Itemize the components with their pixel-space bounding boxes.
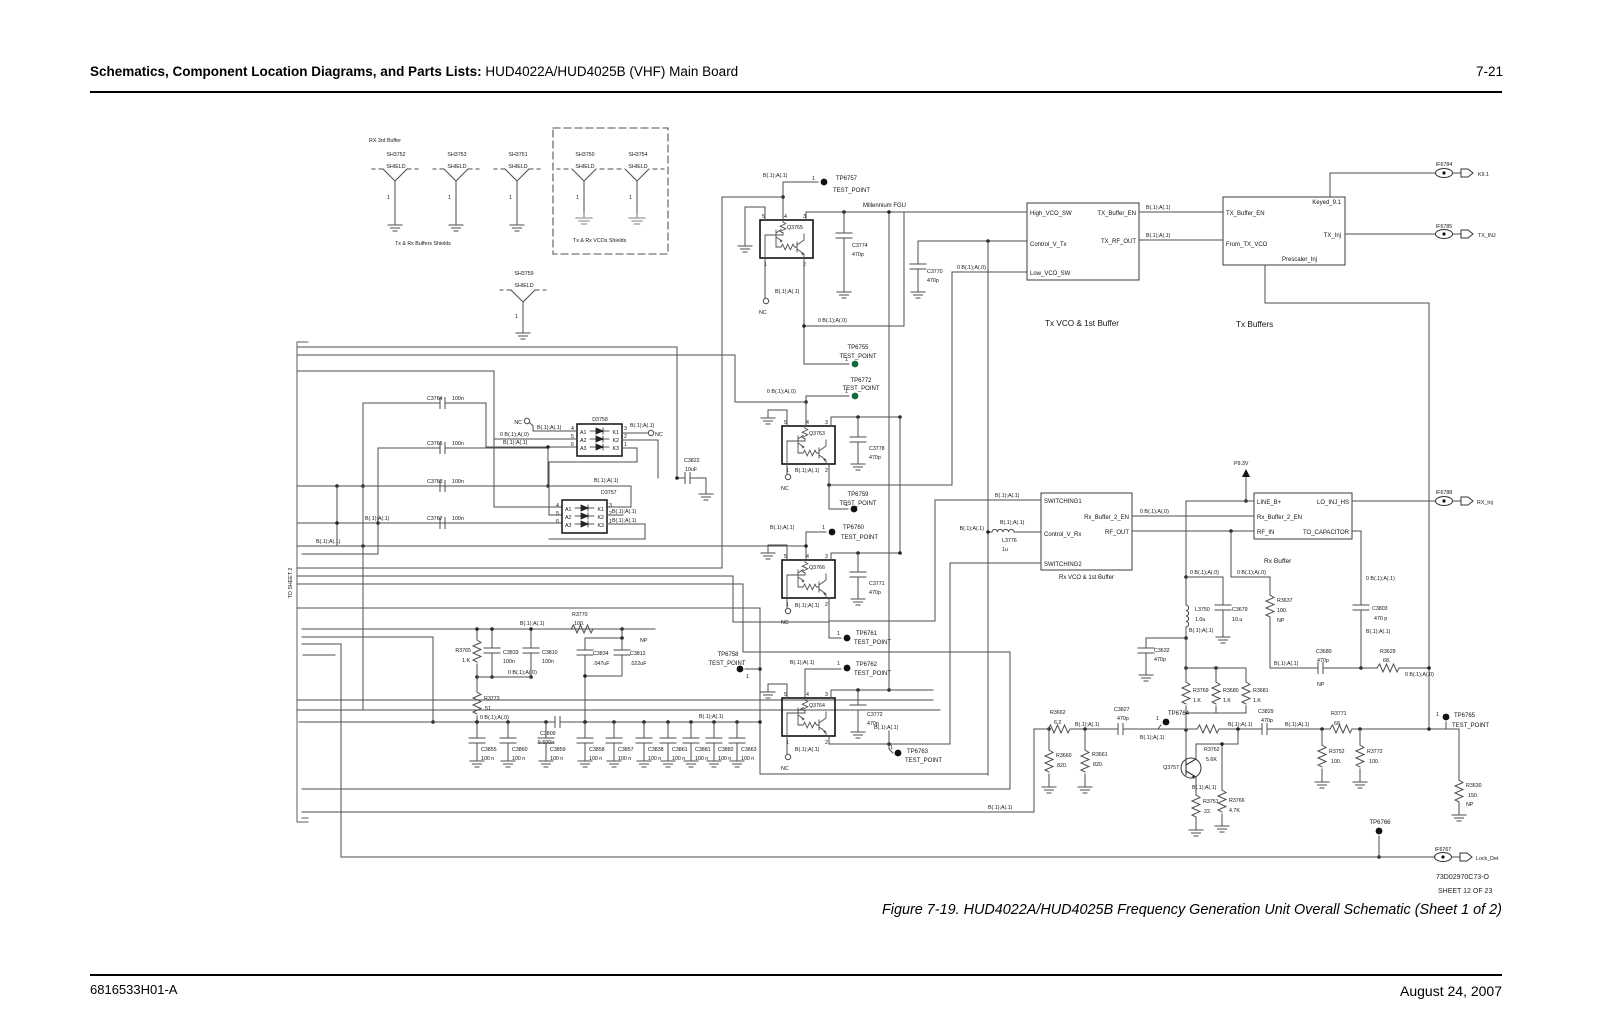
svg-text:A1: A1 <box>580 430 587 436</box>
capacitor C3827 <box>1114 707 1130 735</box>
test point TP6757 <box>812 176 870 194</box>
header text <box>90 64 738 79</box>
svg-text:B(.1);A(.1): B(.1);A(.1) <box>770 525 795 531</box>
svg-text:Rx Buffer: Rx Buffer <box>1264 558 1292 565</box>
svg-text:1u: 1u <box>1002 547 1008 553</box>
svg-text:TP6772: TP6772 <box>850 378 872 384</box>
svg-text:R3662: R3662 <box>1050 710 1066 716</box>
capacitor C3855 <box>469 720 497 767</box>
wire TP6772 feed <box>806 396 849 402</box>
wire <box>722 197 783 568</box>
shield SH3753 <box>433 152 479 231</box>
wire Keyed_9.1 <box>1330 173 1435 197</box>
svg-text:B(.1);A(.1): B(.1);A(.1) <box>1228 722 1253 728</box>
test point TP6759 <box>829 485 848 509</box>
wire <box>783 182 818 220</box>
svg-text:R3773: R3773 <box>484 696 500 702</box>
svg-text:B(.1);A(.1): B(.1);A(.1) <box>795 603 820 609</box>
svg-text:22.: 22. <box>1204 809 1211 815</box>
svg-text:IF6785: IF6785 <box>1436 224 1453 230</box>
test point TP6772 <box>842 378 879 399</box>
svg-text:Prescaler_Inj: Prescaler_Inj <box>1282 257 1317 263</box>
svg-text:LO_INJ_HS: LO_INJ_HS <box>1317 500 1349 506</box>
svg-text:B(.1);A(.1): B(.1);A(.1) <box>790 660 815 666</box>
svg-text:TEST_POINT: TEST_POINT <box>841 535 878 541</box>
svg-text:B(.1);A(.1): B(.1);A(.1) <box>503 440 528 446</box>
svg-text:TEST_POINT: TEST_POINT <box>905 758 942 764</box>
svg-text:10.u: 10.u <box>1232 617 1242 623</box>
svg-text:100.: 100. <box>574 621 584 627</box>
svg-text:RF_OUT: RF_OUT <box>1105 530 1129 536</box>
test point TP6758 <box>708 652 749 680</box>
svg-text:5: 5 <box>556 511 559 517</box>
capacitor C3829 <box>1258 709 1274 735</box>
block U Rx VCO & 1st Buffer <box>1041 493 1132 570</box>
svg-text:1: 1 <box>576 195 579 201</box>
svg-text:Q3763: Q3763 <box>809 431 825 437</box>
svg-text:SH3752: SH3752 <box>386 152 405 158</box>
svg-text:2: 2 <box>825 740 828 746</box>
svg-text:TP6759: TP6759 <box>847 492 869 498</box>
flag IF6788 <box>1436 490 1493 506</box>
svg-text:B(.1);A(.1): B(.1);A(.1) <box>795 747 820 753</box>
svg-text:TP6764: TP6764 <box>1168 711 1190 717</box>
svg-text:B(.1);A(.1): B(.1);A(.1) <box>537 425 562 431</box>
svg-text:C3810: C3810 <box>542 650 558 656</box>
NC pin K1 <box>622 423 663 438</box>
svg-text:TP6762: TP6762 <box>856 662 878 668</box>
capacitor C3881 <box>683 720 711 767</box>
svg-text:P9.3V: P9.3V <box>1234 461 1249 467</box>
svg-text:100 n: 100 n <box>695 756 708 762</box>
svg-text:470p: 470p <box>1317 658 1329 664</box>
wire pin2 down <box>804 258 849 364</box>
transistor pack Q3763 <box>782 420 835 474</box>
inductor L3750 <box>1184 605 1213 670</box>
svg-text:L3776: L3776 <box>1002 538 1017 544</box>
svg-text:100 n: 100 n <box>618 756 631 762</box>
svg-text:C3679: C3679 <box>1232 607 1248 613</box>
wire pin1 NC <box>764 258 766 298</box>
svg-text:C3882: C3882 <box>718 747 734 753</box>
svg-text:100.: 100. <box>1277 608 1287 614</box>
svg-text:C3765: C3765 <box>427 441 443 447</box>
svg-text:NP: NP <box>640 638 648 644</box>
svg-text:B(.1);A(.1): B(.1);A(.1) <box>995 493 1020 499</box>
svg-text:C3809: C3809 <box>540 731 556 737</box>
svg-text:0 B(.1);A(.0): 0 B(.1);A(.0) <box>767 389 796 395</box>
svg-text:0 B(.1);A(.0): 0 B(.1);A(.0) <box>508 670 537 676</box>
svg-text:TX_INJ: TX_INJ <box>1478 233 1496 239</box>
svg-text:100 n: 100 n <box>648 756 661 762</box>
wire pin2 <box>829 464 952 485</box>
svg-text:1.K: 1.K <box>1253 698 1261 704</box>
svg-text:C3863: C3863 <box>741 747 757 753</box>
svg-text:K1: K1 <box>613 430 620 436</box>
resistor R3752 <box>1315 729 1345 788</box>
shield SH3751 <box>494 152 540 231</box>
svg-text:TP6755: TP6755 <box>847 345 869 351</box>
svg-text:Lock_Det: Lock_Det <box>1476 856 1499 862</box>
svg-text:C3774: C3774 <box>852 243 868 249</box>
svg-text:TP6760: TP6760 <box>843 525 865 531</box>
svg-text:1.K: 1.K <box>1223 698 1231 704</box>
shield SH3754 <box>610 152 664 224</box>
capacitor C3822 <box>675 347 713 500</box>
diode array D3757 <box>556 490 617 533</box>
svg-text:0 B(.1);A(.0): 0 B(.1);A(.0) <box>500 432 529 438</box>
svg-text:B(.1);A(.1): B(.1);A(.1) <box>1146 233 1171 239</box>
svg-text:B(.1);A(.1): B(.1);A(.1) <box>763 173 788 179</box>
svg-text:Millennium FGU: Millennium FGU <box>863 203 906 209</box>
power P9.3V <box>1234 461 1250 503</box>
svg-text:NC: NC <box>781 766 789 772</box>
shield SH3752 <box>372 152 418 231</box>
wire emitter <box>1195 777 1197 795</box>
svg-text:High_VCO_SW: High_VCO_SW <box>1030 211 1072 217</box>
svg-text:R3765: R3765 <box>455 648 471 654</box>
resistor R3769 <box>1182 668 1209 713</box>
svg-text:B(.1);A(.1): B(.1);A(.1) <box>1192 785 1217 791</box>
resistor R3681 <box>1242 668 1269 713</box>
wire pin3 <box>831 690 933 698</box>
svg-text:TP6763: TP6763 <box>907 749 929 755</box>
capacitor C3863 <box>729 720 757 767</box>
svg-text:100.: 100. <box>1369 759 1379 765</box>
svg-text:.047uF: .047uF <box>593 661 610 667</box>
wire pin2 <box>829 598 935 621</box>
svg-text:NP: NP <box>1466 802 1474 808</box>
svg-text:TO SHEET 2: TO SHEET 2 <box>288 568 294 599</box>
transistor Q3757 <box>1163 758 1201 779</box>
svg-text:100 n: 100 n <box>550 756 563 762</box>
svg-text:SHIELD: SHIELD <box>508 164 527 170</box>
svg-text:L3750: L3750 <box>1195 607 1210 613</box>
capacitor C3810 <box>523 627 558 679</box>
svg-text:SHIELD: SHIELD <box>386 164 405 170</box>
svg-text:C3860: C3860 <box>512 747 528 753</box>
svg-text:R3681: R3681 <box>1253 688 1269 694</box>
svg-text:0 B(.1);A(.0): 0 B(.1);A(.0) <box>818 318 847 324</box>
svg-text:R3629: R3629 <box>1380 649 1396 655</box>
svg-text:NC: NC <box>514 420 522 426</box>
svg-text:470p: 470p <box>1154 657 1166 663</box>
svg-text:TEST_POINT: TEST_POINT <box>839 354 876 360</box>
svg-text:From_TX_VCO: From_TX_VCO <box>1226 242 1268 248</box>
NC <box>763 298 768 303</box>
svg-text:C3771: C3771 <box>869 581 885 587</box>
svg-text:10uF: 10uF <box>685 467 698 473</box>
rail keyed <box>888 212 890 690</box>
svg-text:TX_RF_OUT: TX_RF_OUT <box>1101 239 1136 245</box>
svg-text:68.: 68. <box>1334 721 1341 727</box>
svg-text:TEST_POINT: TEST_POINT <box>854 671 891 677</box>
svg-text:470p: 470p <box>852 252 864 258</box>
svg-text:B(.1);A(.1): B(.1);A(.1) <box>1075 722 1100 728</box>
svg-text:C3763: C3763 <box>427 479 443 485</box>
transistor pack Q3764 <box>782 692 835 746</box>
wire pin3 rail <box>831 417 900 426</box>
wire pin1 NC <box>786 736 788 754</box>
wire bundle from bus <box>297 346 677 348</box>
svg-text:C3803: C3803 <box>1372 606 1388 612</box>
wire A3 net <box>486 446 577 448</box>
svg-text:470p: 470p <box>869 455 881 461</box>
resistor R3630 <box>1452 780 1482 821</box>
svg-text:C3778: C3778 <box>869 446 885 452</box>
svg-text:.022uF: .022uF <box>630 661 647 667</box>
svg-text:C3855: C3855 <box>481 747 497 753</box>
wire TO_CAPACITOR <box>1352 531 1361 605</box>
capacitor C3680 <box>1316 649 1332 688</box>
capacitor C3764 <box>361 396 486 710</box>
svg-text:1: 1 <box>629 195 632 201</box>
svg-text:TEST_POINT: TEST_POINT <box>1452 723 1489 729</box>
test point TP6762 <box>837 661 891 677</box>
svg-text:2: 2 <box>624 434 627 440</box>
svg-text:B(.1);A(.1): B(.1);A(.1) <box>795 468 820 474</box>
bus TO SHEET 2 <box>297 342 308 822</box>
svg-text:C3827: C3827 <box>1114 707 1130 713</box>
wire Rx_Buffer_2_EN <box>1132 515 1254 517</box>
svg-text:0 B(.1);A(.0): 0 B(.1);A(.0) <box>1237 570 1266 576</box>
RF chain line <box>1270 667 1361 669</box>
capacitor C3809 on bus <box>299 715 760 746</box>
svg-text:Rx_Buffer_2_EN: Rx_Buffer_2_EN <box>1084 515 1129 521</box>
capacitor C3833 <box>484 627 519 679</box>
wire K3 wrap <box>549 448 637 515</box>
resistor R3766 <box>1215 744 1245 832</box>
test point TP6765 <box>1436 712 1489 729</box>
svg-text:B(.1);A(.1): B(.1);A(.1) <box>520 621 545 627</box>
svg-text:TX_Inj: TX_Inj <box>1324 233 1341 239</box>
resistor R3629 <box>1361 649 1434 678</box>
svg-text:SH3753: SH3753 <box>447 152 466 158</box>
svg-text:RX_Inj: RX_Inj <box>1477 500 1493 506</box>
svg-text:Low_VCO_SW: Low_VCO_SW <box>1030 271 1071 277</box>
svg-text:C3833: C3833 <box>503 650 519 656</box>
svg-text:470p: 470p <box>1117 716 1129 722</box>
test point TP6760 <box>822 525 878 541</box>
wire SWITCHING1 <box>935 499 1041 501</box>
svg-text:0 B(.1);A(.0): 0 B(.1);A(.0) <box>1140 509 1169 515</box>
svg-text:Keyed_9.1: Keyed_9.1 <box>1312 200 1341 206</box>
svg-text:6: 6 <box>556 519 559 525</box>
svg-text:B(.1);A(.1): B(.1);A(.1) <box>1189 628 1214 634</box>
wire pin3 rail <box>831 553 900 560</box>
svg-text:Q3765: Q3765 <box>787 225 803 231</box>
svg-text:R3762: R3762 <box>1204 747 1220 753</box>
svg-text:TEST_POINT: TEST_POINT <box>708 661 745 667</box>
shield SH3759 <box>500 271 546 339</box>
svg-text:100n: 100n <box>452 479 464 485</box>
resistor R3637 <box>1266 595 1293 668</box>
wire TX_Buffer_EN <box>1139 211 1223 213</box>
capacitor C3772 <box>850 690 883 738</box>
transistor pack Q3766 <box>782 554 835 608</box>
wire K3 wrap <box>549 524 645 539</box>
wire K2 to C3822 net <box>622 440 658 478</box>
svg-text:0 B(.1);A(.1): 0 B(.1);A(.1) <box>1366 576 1395 582</box>
svg-text:TP6757: TP6757 <box>836 176 858 182</box>
svg-text:68.: 68. <box>1383 658 1390 664</box>
wire pin1 NC <box>786 598 788 608</box>
svg-text:B(.1);A(.1): B(.1);A(.1) <box>775 289 800 295</box>
svg-text:Q3764: Q3764 <box>809 703 825 709</box>
capacitor C3882 <box>706 720 734 767</box>
wire Control_V_Tx <box>918 240 1027 242</box>
svg-text:2: 2 <box>825 602 828 608</box>
svg-text:B(.1);A(.1): B(.1);A(.1) <box>1274 661 1299 667</box>
svg-text:100n: 100n <box>542 659 554 665</box>
svg-text:1: 1 <box>837 631 840 637</box>
svg-text:1: 1 <box>746 674 749 680</box>
capacitor C3838 <box>636 720 664 767</box>
bottom bus Lock_Det <box>341 644 1435 857</box>
wire pin1 NC <box>786 464 788 474</box>
svg-text:SHIELD: SHIELD <box>628 164 647 170</box>
wire pin2 <box>829 736 950 744</box>
flag IF6767 <box>1435 847 1499 862</box>
svg-text:Q3766: Q3766 <box>809 565 825 571</box>
wire pin5 ground <box>768 684 787 698</box>
svg-text:1.K: 1.K <box>462 658 470 664</box>
wire collector <box>1195 744 1197 759</box>
svg-text:IF6788: IF6788 <box>1436 490 1453 496</box>
svg-text:NP: NP <box>1277 618 1285 624</box>
svg-text:1: 1 <box>515 314 518 320</box>
wire corner to 0-net <box>804 212 904 326</box>
svg-text:1.K: 1.K <box>1193 698 1201 704</box>
capacitor C3861 <box>660 720 688 767</box>
flag IF6785 <box>1436 224 1497 239</box>
svg-text:470 p: 470 p <box>1374 616 1387 622</box>
svg-text:Tx & Rx VCOs Shields: Tx & Rx VCOs Shields <box>573 238 627 244</box>
base chain line <box>1034 729 1186 812</box>
svg-text:B(.1);A(.1): B(.1);A(.1) <box>1000 520 1025 526</box>
svg-text:SH3759: SH3759 <box>514 271 533 277</box>
wire pin5 ground <box>768 410 787 426</box>
wire K2 label <box>607 514 623 516</box>
svg-text:820.: 820. <box>1093 762 1103 768</box>
capacitor C3834 <box>577 638 610 676</box>
wire RF_OUT / RF_IN <box>1132 530 1254 532</box>
svg-text:SWITCHING2: SWITCHING2 <box>1044 562 1082 568</box>
svg-text:TX_Buffer_EN: TX_Buffer_EN <box>1097 211 1136 217</box>
svg-text:B(.1);A(.1): B(.1);A(.1) <box>1140 735 1165 741</box>
collector chain C3829 <box>1238 729 1459 780</box>
svg-text:1: 1 <box>822 525 825 531</box>
svg-text:C3770: C3770 <box>927 269 943 275</box>
svg-text:Q3757: Q3757 <box>1163 765 1179 771</box>
svg-text:SH3754: SH3754 <box>628 152 647 158</box>
svg-text:0 B(.1);A(.0): 0 B(.1);A(.0) <box>957 265 986 271</box>
node line <box>302 628 655 630</box>
svg-text:1: 1 <box>624 442 627 448</box>
svg-text:100n: 100n <box>452 441 464 447</box>
resistor trio R3769 R3680 R3681 <box>1186 668 1246 730</box>
svg-text:100 n: 100 n <box>672 756 685 762</box>
NC pin A1 <box>514 418 577 431</box>
block U Tx Buffers <box>1223 197 1345 265</box>
wire Prescaler_Inj <box>1265 265 1429 728</box>
svg-text:K2: K2 <box>613 438 620 444</box>
svg-text:R3766: R3766 <box>1229 798 1245 804</box>
svg-text:K3: K3 <box>598 523 605 529</box>
wire base <box>1185 729 1187 761</box>
svg-text:C3772: C3772 <box>867 712 883 718</box>
resistor R3662 <box>1048 710 1070 733</box>
svg-text:B(.1);A(.1): B(.1);A(.1) <box>699 714 724 720</box>
svg-text:100 n: 100 n <box>512 756 525 762</box>
svg-text:R3752: R3752 <box>1329 749 1345 755</box>
resistor R3751 <box>1189 795 1219 836</box>
svg-text:100 n: 100 n <box>718 756 731 762</box>
svg-text:B(.1);A(.1): B(.1);A(.1) <box>630 423 655 429</box>
svg-text:470p: 470p <box>869 590 881 596</box>
svg-text:B(.1);A(.1): B(.1);A(.1) <box>1366 629 1391 635</box>
svg-text:3: 3 <box>825 692 828 698</box>
capacitor C3767 <box>335 486 562 546</box>
svg-text:B(.1);A(.1): B(.1);A(.1) <box>874 725 899 731</box>
svg-text:6: 6 <box>571 442 574 448</box>
left rail L3750 branch <box>1185 501 1187 605</box>
svg-text:K1: K1 <box>598 507 605 513</box>
svg-text:B(.1);A(.1): B(.1);A(.1) <box>960 526 985 532</box>
rail <box>951 272 953 485</box>
diode array D3758 <box>571 417 627 456</box>
svg-text:4: 4 <box>806 692 809 698</box>
wire LINE_B+ <box>1186 500 1254 502</box>
inductor L3776 <box>960 520 1041 553</box>
svg-text:IF6767: IF6767 <box>1435 847 1452 853</box>
svg-text:NP: NP <box>1317 682 1325 688</box>
svg-text:C3632: C3632 <box>1154 648 1170 654</box>
test point TP6766 <box>1369 820 1391 859</box>
svg-text:A2: A2 <box>565 515 572 521</box>
svg-text:RF_IN: RF_IN <box>1257 530 1274 536</box>
svg-text:150.: 150. <box>1468 793 1478 799</box>
test point TP6764 <box>1156 711 1190 729</box>
svg-text:Rx VCO & 1st Buffer: Rx VCO & 1st Buffer <box>1059 575 1114 581</box>
svg-text:5.6K: 5.6K <box>1206 757 1217 763</box>
capacitor C3859 <box>538 720 566 767</box>
svg-text:4.7K: 4.7K <box>1229 808 1240 814</box>
svg-text:TP6758: TP6758 <box>717 652 739 658</box>
svg-text:1: 1 <box>890 745 893 751</box>
svg-text:A2: A2 <box>580 438 587 444</box>
svg-text:Control_V_Tx: Control_V_Tx <box>1030 242 1067 248</box>
wire LO_INJ_HS to flag <box>1352 500 1435 502</box>
svg-text:4: 4 <box>806 554 809 560</box>
resistor R3765 <box>455 627 481 679</box>
capacitor C3632 <box>1138 638 1186 681</box>
svg-text:Tx & Rx Buffers Shields: Tx & Rx Buffers Shields <box>395 241 451 247</box>
capacitor C3679 <box>1186 577 1248 643</box>
svg-text:C3861: C3861 <box>672 747 688 753</box>
svg-text:3: 3 <box>624 426 627 432</box>
svg-text:IF6784: IF6784 <box>1436 162 1453 168</box>
svg-text:1: 1 <box>837 661 840 667</box>
svg-text:SH3751: SH3751 <box>508 152 527 158</box>
svg-text:100n: 100n <box>452 396 464 402</box>
svg-text:TEST_POINT: TEST_POINT <box>842 386 879 392</box>
node <box>781 195 785 199</box>
svg-text:TEST_POINT: TEST_POINT <box>839 501 876 507</box>
capacitor C3812 <box>614 638 647 676</box>
svg-text:TP6766: TP6766 <box>1369 820 1391 826</box>
svg-text:K9.1: K9.1 <box>1478 172 1489 178</box>
